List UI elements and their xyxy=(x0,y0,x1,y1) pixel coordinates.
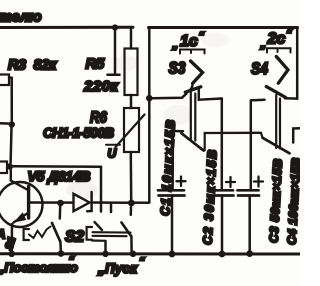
node junction dot R6 bottom xyxy=(128,200,135,207)
wire from left edge y123 xyxy=(0,122,10,125)
svg-text:S4: S4 xyxy=(251,60,268,79)
svg-text:„Постоянно: „Постоянно xyxy=(0,260,78,275)
wire R3 to vertical xyxy=(9,78,12,123)
svg-text:“: “ xyxy=(69,255,75,267)
svg-text:“: “ xyxy=(286,29,292,41)
wire S3 to C2 corner xyxy=(199,90,222,100)
node junction dot R3/collector xyxy=(9,121,15,127)
svg-text:S3: S3 xyxy=(169,59,186,78)
wire diode to right section xyxy=(92,201,149,204)
diode V5 triangle xyxy=(74,194,90,211)
transistor V? circle xyxy=(0,182,43,227)
wire S2 right to bus xyxy=(130,236,133,252)
transistor base bar xyxy=(27,187,30,219)
capacitor C3 bottom plate xyxy=(238,194,259,197)
transistor collector arm xyxy=(11,166,28,190)
svg-text:R5: R5 xyxy=(86,56,105,73)
svg-text:„: „ xyxy=(172,39,179,51)
svg-text:1с: 1с xyxy=(180,33,198,50)
wire R5 wiper from top bus xyxy=(114,30,117,73)
node dot C1/bus xyxy=(169,251,176,258)
switch S2 rail lower xyxy=(92,239,106,242)
wire stub S2 fixed contact xyxy=(110,204,113,212)
switch S3 chevron xyxy=(191,61,203,83)
paper smudge xyxy=(114,55,138,71)
resistor R5 body xyxy=(125,49,138,96)
switch S1 squiggle linkage xyxy=(29,227,51,239)
wire S3 feed horizontal xyxy=(152,94,187,99)
switch S4 lower blade xyxy=(263,138,290,154)
node dot S2b/bus xyxy=(130,251,137,258)
capacitor C1 top wire xyxy=(171,131,174,189)
svg-text:“: “ xyxy=(199,31,205,43)
svg-text:U: U xyxy=(108,147,117,161)
wire S4 feed right to box edge xyxy=(285,97,297,100)
transistor emitter arm xyxy=(14,213,29,223)
switch S3 contact bar xyxy=(185,87,201,92)
paper smudge xyxy=(164,105,192,125)
wire R6 bottom lead xyxy=(130,152,133,201)
wire vertical to lower node xyxy=(9,127,12,163)
node dot C3/bus xyxy=(246,250,253,257)
svg-text:СН1-1-500В: СН1-1-500В xyxy=(43,125,114,140)
wire stub below R6 node xyxy=(130,207,133,215)
wire top bus left xyxy=(0,26,133,29)
bracket under 2с label xyxy=(267,48,291,52)
switch S2 bracket xyxy=(87,227,92,240)
wire bottom bus xyxy=(0,252,300,255)
svg-text:R6: R6 xyxy=(90,110,108,127)
node junction dot base/S1 xyxy=(57,200,64,207)
paper smudge xyxy=(66,181,98,199)
capacitor C1 top plate xyxy=(158,189,184,192)
capacitor C1 bottom plate xyxy=(159,194,185,197)
wire S4 linkage vertical a xyxy=(275,95,277,148)
wire rail y133 xyxy=(205,132,261,134)
node junction dot S3 feed xyxy=(146,95,153,102)
transistor emitter arrowhead xyxy=(15,213,26,222)
bracket under 1с label xyxy=(180,50,205,54)
svg-text:220к: 220к xyxy=(83,78,119,95)
capacitor C2 top wire xyxy=(221,99,224,189)
wire top bus of right box xyxy=(149,26,298,29)
capacitor C2 bottom wire xyxy=(221,196,224,252)
switch S1 blade xyxy=(52,223,60,242)
switch S1 fixed stub xyxy=(59,206,62,219)
wire base to diode xyxy=(31,201,73,204)
switch S3 lower blade xyxy=(182,133,204,150)
resistor R3 body at left edge xyxy=(0,75,9,86)
svg-text:S1: S1 xyxy=(3,235,18,251)
svg-text:С1 10мк×15В: С1 10мк×15В xyxy=(158,120,178,217)
svg-text:С2 30мк×15В: С2 30мк×15В xyxy=(201,150,220,246)
wire R5 wiper T-bar xyxy=(108,74,120,77)
capacitor C1 bottom wire xyxy=(171,196,174,252)
paper smudge xyxy=(201,33,229,47)
rail C1 corner xyxy=(171,130,183,133)
switch S4 chevron xyxy=(276,57,288,84)
switch S1 bracket xyxy=(24,229,29,240)
node junction dot collector node xyxy=(7,163,13,169)
svg-text:S2: S2 xyxy=(65,229,84,246)
capacitor C1 plus sign xyxy=(177,177,186,187)
svg-text:„Пуск: „Пуск xyxy=(97,261,138,276)
switch S2 right blade xyxy=(122,223,132,237)
svg-text:“: “ xyxy=(139,256,145,268)
wire corner down x101 crossing base wire xyxy=(100,167,103,212)
switch S4 contact bar xyxy=(266,87,285,98)
wire emitter down to bus xyxy=(10,224,13,251)
capacitor C3 top corner wire xyxy=(250,100,253,188)
wire S4 feed left xyxy=(251,99,265,102)
switch S2 rail middle xyxy=(93,235,127,238)
resistor body at left edge lower xyxy=(0,162,7,174)
svg-text:С3 50мк×15В: С3 50мк×15В xyxy=(267,158,285,243)
wire right vertical of right box xyxy=(296,28,299,99)
wire S3 linkage vertical a xyxy=(190,89,192,141)
capacitor C3 bottom wire xyxy=(248,196,251,252)
diode V5 cathode bar with zener hook xyxy=(87,192,91,211)
capacitor C3 plus sign xyxy=(254,177,263,187)
capacitor C2 plus sign xyxy=(226,177,235,187)
varistor slash of R6 xyxy=(116,115,145,148)
overline of U label xyxy=(106,144,120,146)
wire S3 linkage vertical b xyxy=(194,94,196,141)
switch S2 left blade xyxy=(95,222,103,230)
svg-text:V5 Д814В: V5 Д814В xyxy=(28,168,91,184)
switch S2 rail upper xyxy=(93,231,131,234)
node dot S2a/bus xyxy=(102,251,109,258)
resistor R5 lead top xyxy=(130,29,133,49)
svg-text:С4 100мк×15В: С4 100мк×15В xyxy=(285,157,300,245)
wire S2 mid to bus xyxy=(104,241,107,252)
wire S1 to bus xyxy=(59,242,62,252)
wire left vertical of right box xyxy=(148,28,151,203)
wire C4 stub corner at right edge xyxy=(293,128,300,142)
switch S3 lower stub xyxy=(204,133,206,151)
switch S4 lower stub xyxy=(261,133,263,138)
svg-text:телю: телю xyxy=(0,10,42,26)
node dot C2/bus xyxy=(219,251,226,258)
resistor R5 lead bottom xyxy=(130,95,133,108)
resistor R6 varistor body xyxy=(124,108,139,152)
svg-text:2с: 2с xyxy=(267,31,286,48)
capacitor C2 top plate xyxy=(211,189,233,192)
svg-text:„: „ xyxy=(260,39,267,51)
svg-text:82к: 82к xyxy=(34,58,58,74)
node dot emitter/bus xyxy=(8,251,15,258)
svg-text:R3: R3 xyxy=(8,58,26,74)
capacitor C3 top plate xyxy=(238,189,259,192)
node junction dot top bus xyxy=(112,24,118,30)
switch S3 link chevron to bar xyxy=(191,83,194,87)
wire S4 linkage vertical b xyxy=(279,99,281,149)
node dot S1/bus xyxy=(58,250,65,257)
capacitor C2 bottom plate xyxy=(212,194,234,197)
wire horizontal y166 to diode branch corner xyxy=(13,165,102,168)
